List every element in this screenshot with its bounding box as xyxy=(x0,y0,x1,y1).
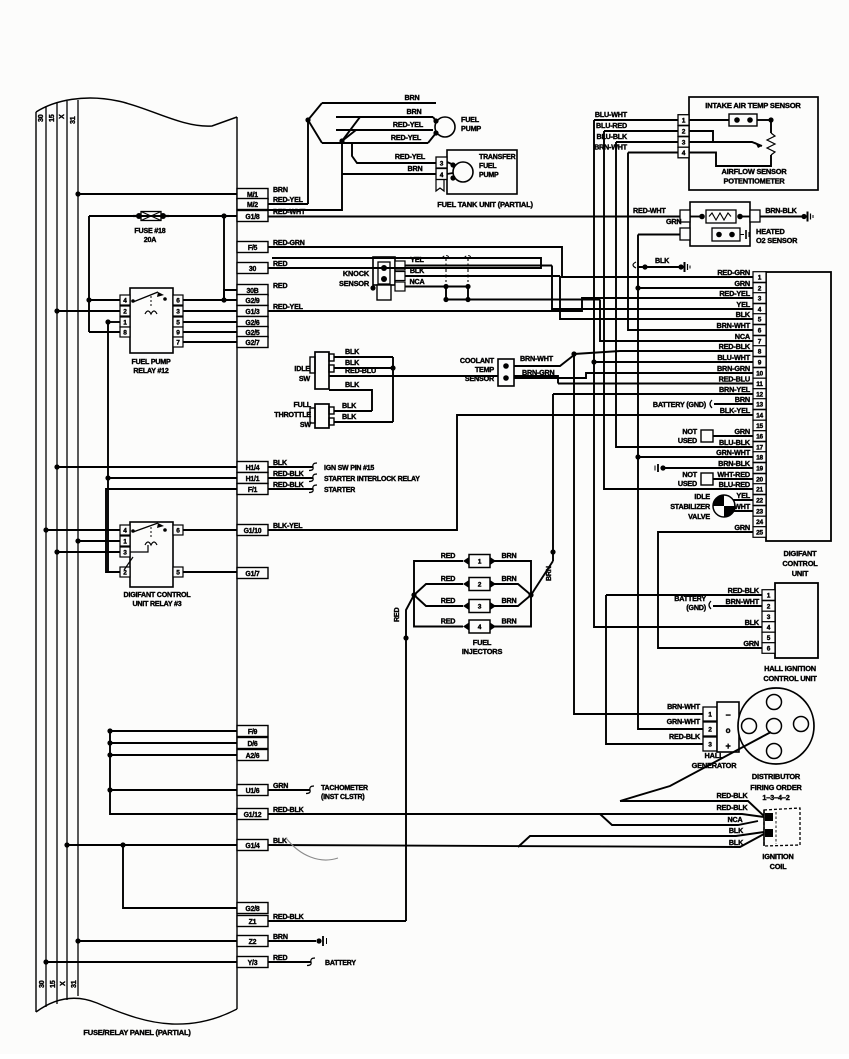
connector D/6 xyxy=(237,738,268,749)
svg-text:GRN-WHT: GRN-WHT xyxy=(716,448,751,457)
wire BRN 1 xyxy=(322,102,436,104)
svg-text:−: − xyxy=(725,710,730,720)
svg-text:21: 21 xyxy=(756,487,763,494)
relay12 pin 5 xyxy=(173,317,183,327)
svg-text:WHT-RED: WHT-RED xyxy=(717,470,750,479)
svg-text:UNIT: UNIT xyxy=(792,569,809,578)
injector right bus xyxy=(490,561,531,627)
svg-text:X: X xyxy=(57,114,66,119)
svg-text:24: 24 xyxy=(756,519,763,526)
digifant pin 9 xyxy=(753,357,766,368)
svg-text:BLK: BLK xyxy=(345,380,360,389)
svg-text:G1/7: G1/7 xyxy=(245,571,260,578)
wire BLU-WHT xyxy=(594,119,678,121)
wire H1/4 to bus 15 xyxy=(57,466,237,468)
digifant pin 2 xyxy=(753,283,766,294)
svg-text:TEMP: TEMP xyxy=(475,365,495,374)
svg-text:4: 4 xyxy=(123,528,127,535)
svg-text:Z1: Z1 xyxy=(249,919,257,926)
inline connector dashes xyxy=(445,258,447,282)
hall generator pin 3 xyxy=(703,737,717,751)
svg-text:15: 15 xyxy=(48,980,57,988)
svg-text:BLK: BLK xyxy=(342,412,357,421)
svg-text:AIRFLOW SENSOR: AIRFLOW SENSOR xyxy=(722,167,788,176)
riser v616 BLU-BLK to pin17 xyxy=(616,142,753,447)
hall ignition pin 1 xyxy=(762,590,775,601)
svg-text:2: 2 xyxy=(478,582,482,589)
connector 30 xyxy=(237,263,268,274)
svg-text:1: 1 xyxy=(123,320,127,327)
svg-text:RED-BLK: RED-BLK xyxy=(273,913,305,921)
svg-text:RED: RED xyxy=(441,617,456,626)
digifant pin 12 xyxy=(753,389,766,400)
svg-text:VALVE: VALVE xyxy=(688,512,710,521)
svg-text:BLK: BLK xyxy=(729,826,744,835)
G1/4 to bus X xyxy=(67,844,237,846)
svg-text:CONTROL UNIT: CONTROL UNIT xyxy=(763,674,817,683)
hall pin1 wire RED-BLK xyxy=(606,594,762,596)
svg-text:1: 1 xyxy=(478,559,482,566)
svg-text:NCA: NCA xyxy=(728,815,743,824)
digifant pin 15 xyxy=(753,420,766,431)
svg-text:FUEL TANK UNIT (PARTIAL): FUEL TANK UNIT (PARTIAL) xyxy=(437,200,533,209)
svg-text:TRANSFER: TRANSFER xyxy=(479,154,516,161)
relay12 coil xyxy=(145,311,157,314)
svg-text:9: 9 xyxy=(176,330,180,337)
bus 15 xyxy=(56,103,58,1004)
svg-text:5: 5 xyxy=(758,317,762,324)
svg-text:RED-BLK: RED-BLK xyxy=(273,806,305,814)
hall ignition pin 3 xyxy=(762,611,775,622)
svg-text:3: 3 xyxy=(440,161,444,168)
svg-text:22: 22 xyxy=(756,498,763,505)
svg-text:FIRING ORDER: FIRING ORDER xyxy=(750,783,802,792)
digifant pin 19 xyxy=(753,463,766,474)
svg-text:SENSOR: SENSOR xyxy=(465,374,495,383)
wire BRN-WHT coolant xyxy=(514,355,574,366)
relay12 pin 8 xyxy=(120,327,130,337)
svg-text:D/6: D/6 xyxy=(247,741,257,748)
svg-text:2: 2 xyxy=(123,309,127,316)
svg-text:15: 15 xyxy=(47,114,56,122)
digifant pin 24 xyxy=(753,516,766,527)
digifant pin 4 xyxy=(753,304,766,315)
svg-text:BLK-YEL: BLK-YEL xyxy=(273,522,303,530)
svg-text:F/9: F/9 xyxy=(248,729,258,736)
riser v628 BRN-WHT to pin6 xyxy=(628,153,753,331)
connector G1/10 xyxy=(237,525,268,536)
svg-text:GRN: GRN xyxy=(734,523,750,532)
svg-text:5: 5 xyxy=(176,320,180,327)
riser v560 BLK to pin5 xyxy=(560,276,753,319)
svg-text:BRN-GRN: BRN-GRN xyxy=(522,368,555,377)
relay12 left pin wires xyxy=(89,299,120,301)
svg-text:FUEL: FUEL xyxy=(473,638,492,647)
svg-text:COIL: COIL xyxy=(770,862,788,871)
svg-text:YEL: YEL xyxy=(736,300,750,309)
svg-text:IDLE: IDLE xyxy=(294,364,310,373)
relay3 pin 2 xyxy=(120,567,130,577)
digifant pin 1 xyxy=(753,272,766,283)
svg-text:5: 5 xyxy=(176,570,180,577)
shield wire xyxy=(446,299,600,301)
O2 heater xyxy=(712,228,740,241)
connector H1/4 xyxy=(237,462,268,473)
wire BLU-BLK xyxy=(616,141,678,143)
svg-text:BATTERY (GND): BATTERY (GND) xyxy=(653,400,707,409)
intake air temp sensor box xyxy=(689,97,818,190)
IGN SW / STARTER labels xyxy=(268,466,313,468)
svg-text:H1/1: H1/1 xyxy=(246,476,260,483)
transfer pump circle xyxy=(453,162,473,182)
svg-text:RED-YEL: RED-YEL xyxy=(393,120,424,129)
svg-text:12: 12 xyxy=(756,392,763,399)
pin8 junction xyxy=(571,351,576,356)
connector F/1 xyxy=(237,484,268,495)
connector 30B xyxy=(237,285,268,296)
svg-text:BLU-BLK: BLU-BLK xyxy=(596,132,628,141)
hall ignition pin 5 xyxy=(762,632,775,643)
relay3 inner link xyxy=(130,545,148,552)
svg-text:PUMP: PUMP xyxy=(461,124,481,133)
svg-text:F/5: F/5 xyxy=(248,245,258,252)
svg-text:30: 30 xyxy=(36,114,45,122)
svg-text:FUEL PUMP: FUEL PUMP xyxy=(131,358,171,366)
svg-text:RED-YEL: RED-YEL xyxy=(273,303,304,311)
wire RED-YEL G1/3 to pin3 xyxy=(268,298,753,311)
svg-text:RED-BLK: RED-BLK xyxy=(719,342,751,351)
svg-text:X: X xyxy=(58,981,67,986)
svg-text:BRN: BRN xyxy=(408,164,423,173)
transfer fuel pump box xyxy=(447,150,517,194)
svg-text:HALL IGNITION: HALL IGNITION xyxy=(764,664,816,673)
svg-text:RED-BLK: RED-BLK xyxy=(728,586,760,595)
wire RED 30 loop xyxy=(268,258,541,268)
connector G1/4 xyxy=(237,840,268,851)
svg-text:31: 31 xyxy=(69,980,78,988)
svg-text:GRN-WHT: GRN-WHT xyxy=(667,717,701,726)
svg-text:25: 25 xyxy=(756,530,763,537)
svg-text:BRN: BRN xyxy=(502,617,517,626)
hall generator pin 2 xyxy=(703,722,717,736)
digifant pin 25 xyxy=(753,527,766,538)
coolant temp sensor xyxy=(498,359,514,386)
svg-text:BRN: BRN xyxy=(502,574,517,583)
digifant pin 3 xyxy=(753,293,766,304)
NOT USED box pin20 xyxy=(701,473,713,485)
riser v342 xyxy=(341,141,343,174)
GRN wire to riser v638 xyxy=(638,234,680,236)
svg-text:UNIT RELAY #3: UNIT RELAY #3 xyxy=(132,600,181,608)
potentiometer xyxy=(770,120,772,133)
svg-text:FULL: FULL xyxy=(293,400,311,409)
wire GRN-WHT pin18 xyxy=(638,456,753,458)
svg-text:3: 3 xyxy=(758,296,762,303)
NOT USED box pin16 xyxy=(701,430,713,442)
wire H1/1 to v108 xyxy=(108,477,237,479)
svg-text:(INST CLSTR): (INST CLSTR) xyxy=(321,794,364,801)
svg-text:RED-BLK: RED-BLK xyxy=(669,732,701,741)
svg-text:PUMP: PUMP xyxy=(479,172,499,179)
wire v342 lower to G1/8 area xyxy=(268,174,342,210)
v108 riser xyxy=(107,322,109,572)
intake sensor pin 3 xyxy=(678,137,689,148)
svg-text:BRN-WHT: BRN-WHT xyxy=(717,321,751,330)
svg-text:KNOCK: KNOCK xyxy=(343,269,370,278)
wire BLK xyxy=(405,275,560,277)
wire G1/10 BLK-YEL xyxy=(268,415,753,530)
svg-text:4: 4 xyxy=(767,625,771,632)
svg-text:DISTRIBUTOR: DISTRIBUTOR xyxy=(752,772,801,781)
Y/3 to bus 30 xyxy=(46,961,237,963)
diagonals to riser v342 xyxy=(342,117,360,141)
relay12 pin 3 xyxy=(173,306,183,316)
riser v606 RED-BLK to hall generator pin3 xyxy=(606,595,703,744)
svg-text:RED: RED xyxy=(273,282,287,290)
svg-text:18: 18 xyxy=(756,455,763,462)
svg-text:H1/4: H1/4 xyxy=(246,465,260,472)
svg-text:15: 15 xyxy=(756,423,763,430)
svg-text:8: 8 xyxy=(123,330,127,337)
ground symbol BLK xyxy=(678,264,683,269)
wire BLK G1/4 to coil xyxy=(268,834,764,847)
junction fuse row / v224 xyxy=(223,216,225,300)
wire BLU-WHT pin9 xyxy=(594,361,753,363)
wire NCA xyxy=(405,286,468,288)
injector left bus xyxy=(414,561,463,627)
wire NCA coil xyxy=(600,814,758,825)
svg-text:30: 30 xyxy=(249,266,257,273)
svg-text:BRN: BRN xyxy=(273,933,288,941)
svg-text:RED: RED xyxy=(441,551,456,560)
wire RED-BLU xyxy=(329,376,558,384)
fuel injector 3 xyxy=(469,600,490,613)
svg-text:BRN: BRN xyxy=(407,107,422,116)
bus X xyxy=(66,101,68,1000)
svg-text:NCA: NCA xyxy=(410,277,425,286)
knock sensor xyxy=(373,257,395,285)
riser v393 xyxy=(392,357,394,422)
distributor wire to coil xyxy=(620,732,771,801)
svg-text:BRN: BRN xyxy=(545,566,553,581)
connector U1/6 xyxy=(237,785,268,796)
BRN-BLK to ground xyxy=(760,216,804,218)
svg-text:BRN-GRN: BRN-GRN xyxy=(717,364,750,373)
svg-text:6: 6 xyxy=(176,528,180,535)
svg-text:STABILIZER: STABILIZER xyxy=(670,502,711,511)
riser v604 BLU-RED to pin21 xyxy=(604,131,753,489)
svg-text:RED-YEL: RED-YEL xyxy=(719,289,750,298)
svg-text:(GND): (GND) xyxy=(686,603,707,612)
svg-text:IGNITION: IGNITION xyxy=(762,852,793,861)
wire RED-GRN F/5 to pin1 xyxy=(268,247,753,277)
svg-text:31: 31 xyxy=(68,116,77,124)
riser v600 NCA to pin7 xyxy=(600,300,753,342)
svg-text:BRN-WHT: BRN-WHT xyxy=(594,143,628,152)
svg-text:G1/10: G1/10 xyxy=(244,528,262,535)
svg-text:BLK: BLK xyxy=(736,310,751,319)
wire BLK coil xyxy=(518,832,764,847)
connector H1/1 xyxy=(237,473,268,484)
digifant pin 14 xyxy=(753,410,766,421)
svg-text:FUEL: FUEL xyxy=(461,115,480,124)
wire F/1 to v97 xyxy=(106,489,237,572)
svg-text:SENSOR: SENSOR xyxy=(339,279,370,288)
Z2 ground xyxy=(268,940,316,942)
wire 30B loop xyxy=(224,290,237,300)
svg-text:2: 2 xyxy=(682,129,686,136)
svg-text:NCA: NCA xyxy=(735,332,751,341)
svg-text:HEATED: HEATED xyxy=(756,227,785,236)
svg-text:4: 4 xyxy=(478,624,482,631)
svg-text:G1/4: G1/4 xyxy=(245,843,260,850)
svg-text:GRN: GRN xyxy=(734,279,750,288)
svg-text:BRN-BLK: BRN-BLK xyxy=(718,459,751,468)
svg-text:1: 1 xyxy=(682,118,686,125)
connector G1/8 xyxy=(237,211,268,222)
svg-text:BRN-WHT: BRN-WHT xyxy=(726,597,760,606)
distributor xyxy=(738,688,814,764)
fuel pump circle xyxy=(435,117,455,137)
F/9 D/6 A2/6 to v110 xyxy=(110,731,237,814)
svg-text:BLK: BLK xyxy=(655,256,670,265)
svg-text:BLK: BLK xyxy=(745,618,760,627)
intake sensor pin 4 xyxy=(678,147,689,158)
svg-text:RED-GRN: RED-GRN xyxy=(273,239,305,247)
svg-text:9: 9 xyxy=(758,360,762,367)
svg-text:RED-BLK: RED-BLK xyxy=(717,803,749,812)
digifant pin 20 xyxy=(753,474,766,485)
svg-text:GRN: GRN xyxy=(734,427,750,436)
heated O2 sensor xyxy=(690,202,750,246)
svg-text:3: 3 xyxy=(682,140,686,147)
svg-text:RED: RED xyxy=(393,608,401,622)
diagonals to riser v308 xyxy=(308,103,322,120)
svg-text:DIGIFANT: DIGIFANT xyxy=(784,549,818,558)
svg-text:+: + xyxy=(725,741,730,751)
svg-text:G2/9: G2/9 xyxy=(245,298,260,305)
digifant pin 16 xyxy=(753,431,766,442)
svg-text:Z2: Z2 xyxy=(249,939,257,946)
svg-text:DIGIFANT CONTROL: DIGIFANT CONTROL xyxy=(124,591,192,599)
full throttle switch xyxy=(315,404,329,428)
svg-text:RED: RED xyxy=(273,954,287,962)
connector Y/3 xyxy=(237,957,268,968)
svg-text:BRN: BRN xyxy=(273,186,288,194)
svg-text:30: 30 xyxy=(37,980,46,988)
svg-text:16: 16 xyxy=(756,434,763,441)
fuel pump relay #12 xyxy=(130,288,173,353)
svg-text:BRN-BLK: BRN-BLK xyxy=(765,206,797,215)
wire M/1 to bus 31 xyxy=(78,193,237,195)
svg-text:1: 1 xyxy=(708,712,712,719)
svg-text:BLU-WHT: BLU-WHT xyxy=(595,110,628,119)
connector G2/7 xyxy=(237,337,268,348)
wire GRN pin2 xyxy=(638,287,753,289)
svg-text:GRN: GRN xyxy=(666,217,681,226)
svg-text:INJECTORS: INJECTORS xyxy=(462,647,503,656)
wire BLK gnd xyxy=(638,266,681,268)
digifant pin 17 xyxy=(753,442,766,453)
riser v574 BRN-WHT to hall generator xyxy=(574,354,703,714)
relay3 pin wires xyxy=(183,529,237,531)
svg-text:COOLANT: COOLANT xyxy=(460,356,495,365)
bus 31 xyxy=(77,100,79,996)
bus 30 xyxy=(45,106,47,1007)
relay3 coil xyxy=(145,542,157,545)
svg-text:SW: SW xyxy=(300,420,312,429)
wire fuse feed: G1/8 left through fuse to v89 xyxy=(89,215,237,217)
wire BRN-GRN coolant xyxy=(514,373,753,378)
hall ignition pin 4 xyxy=(762,622,775,633)
scan artifact curve xyxy=(286,838,338,860)
svg-text:RED-YEL: RED-YEL xyxy=(391,133,422,142)
fuse/relay panel outline xyxy=(36,98,237,126)
fuse #18 symbol xyxy=(136,213,142,219)
idle switch xyxy=(315,352,329,389)
svg-text:6: 6 xyxy=(767,646,771,653)
svg-text:19: 19 xyxy=(756,466,763,473)
wire BRN-YEL pin12 xyxy=(553,393,753,395)
Z2 to bus 31 xyxy=(78,940,237,942)
svg-text:CONTROL: CONTROL xyxy=(782,559,818,568)
digifant pin 8 xyxy=(753,346,766,357)
connector M/2 xyxy=(237,199,268,210)
riser v638 GRN xyxy=(638,235,703,730)
svg-text:3: 3 xyxy=(123,550,127,557)
U1/6 left wire xyxy=(110,789,237,791)
svg-text:RED-YEL: RED-YEL xyxy=(395,152,426,161)
connector G2/6 xyxy=(237,317,268,328)
svg-text:RED: RED xyxy=(441,574,456,583)
digifant pin 5 xyxy=(753,314,766,325)
intake sensor pin 1 xyxy=(678,115,689,126)
relay12 pin 2 xyxy=(120,306,130,316)
svg-text:IGN SW PIN #15: IGN SW PIN #15 xyxy=(324,465,374,472)
svg-text:7: 7 xyxy=(176,340,180,347)
connector G2/9 xyxy=(237,295,268,306)
svg-text:4: 4 xyxy=(682,150,686,157)
digifant control unit relay #3 xyxy=(130,522,173,587)
svg-text:o: o xyxy=(726,726,731,735)
svg-text:GRN: GRN xyxy=(743,639,759,648)
svg-text:USED: USED xyxy=(678,436,697,445)
fuel injector 1 xyxy=(469,555,490,568)
svg-text:TACHOMETER: TACHOMETER xyxy=(321,785,368,792)
digifant pin 22 xyxy=(753,495,766,506)
svg-text:3: 3 xyxy=(767,614,771,621)
svg-text:USED: USED xyxy=(678,479,697,488)
svg-text:4: 4 xyxy=(440,172,444,179)
relay12 pin 9 xyxy=(173,327,183,337)
intake sensor pin 2 xyxy=(678,126,689,137)
svg-text:7: 7 xyxy=(758,339,762,346)
svg-text:BLU-WHT: BLU-WHT xyxy=(717,353,750,362)
svg-text:YEL: YEL xyxy=(410,255,424,264)
hall generator pin 1 xyxy=(703,707,717,721)
connector M/1 xyxy=(237,189,268,200)
digifant control unit U1 xyxy=(766,272,831,541)
svg-text:2: 2 xyxy=(767,604,771,611)
svg-text:BLK-YEL: BLK-YEL xyxy=(720,406,751,415)
wire RED-YEL transfer xyxy=(352,143,436,163)
svg-text:20A: 20A xyxy=(144,236,156,244)
relay12 right pin wires xyxy=(183,299,237,301)
BRN riser xyxy=(531,561,553,595)
relay12 pin 7 xyxy=(173,337,183,347)
digifant pin 7 xyxy=(753,336,766,347)
digifant pin 6 xyxy=(753,325,766,336)
